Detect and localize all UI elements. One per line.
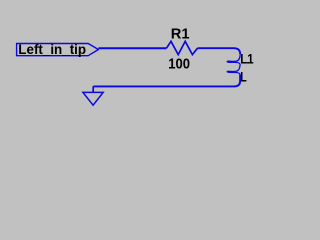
svg-text:L1: L1	[240, 51, 254, 66]
svg-text:L: L	[240, 68, 247, 84]
svg-text:Left_in_tip: Left_in_tip	[18, 42, 86, 57]
svg-text:R1: R1	[171, 26, 190, 42]
svg-text:100: 100	[168, 56, 190, 72]
